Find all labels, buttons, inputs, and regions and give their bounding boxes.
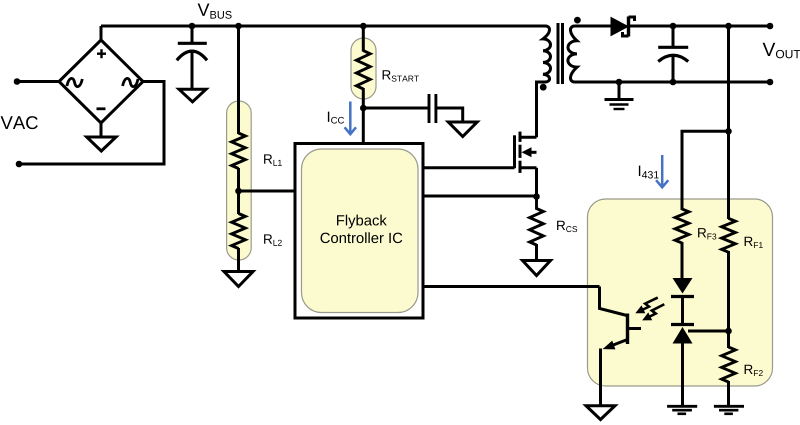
label RL1 xyxy=(264,154,282,165)
node VBUS junction at C1 xyxy=(189,23,196,30)
wire bridge right to VAC bottom xyxy=(19,82,164,165)
label RF3 xyxy=(698,228,716,239)
node secondary polarity dot xyxy=(574,17,581,24)
label VBUS xyxy=(198,4,232,19)
wire RF1 to RF2 xyxy=(727,251,730,348)
diode D1 schottky xyxy=(611,17,635,37)
bridge rectifier BR1 xyxy=(59,40,143,123)
wire VBUS to RSTART xyxy=(362,26,365,52)
wire RCS to ground xyxy=(535,244,538,261)
ground below RCS xyxy=(523,261,551,276)
resistor RF1 xyxy=(722,218,736,252)
resistor RL2 xyxy=(232,214,246,249)
current arrow I431 xyxy=(656,155,668,187)
capacitor bus C1 xyxy=(177,26,207,90)
wire C2 to ground xyxy=(436,108,463,123)
TL431 shunt regulator xyxy=(671,325,694,407)
ground below startup capacitor xyxy=(448,122,477,137)
wire MOSFET drain to transformer primary xyxy=(537,82,547,137)
node ICC junction xyxy=(360,105,367,112)
transformer T1 xyxy=(543,23,577,84)
resistor RL1 xyxy=(232,133,246,169)
ground below bridge xyxy=(87,137,116,151)
node VOUT terminal bottom xyxy=(767,79,774,86)
wire VBUS to RL1 xyxy=(237,26,240,134)
highlight region around feedback network xyxy=(588,199,773,386)
capacitor startup C2 xyxy=(429,94,436,123)
optocoupler phototransistor xyxy=(600,287,642,408)
resistor RF3 xyxy=(675,209,689,243)
node source/RCS junction xyxy=(533,193,540,200)
node VBUS junction at RL1 branch xyxy=(235,23,242,30)
wire TL431 ref to divider xyxy=(688,330,729,333)
wire VBUS rail xyxy=(101,25,546,28)
wire ICC node into IC top pin xyxy=(362,108,365,145)
node C3 bottom junction xyxy=(670,79,677,86)
node VOUT terminal top xyxy=(767,23,774,30)
light arrows into phototransistor xyxy=(633,298,668,325)
transistor Q1 MOSFET xyxy=(515,132,537,173)
wire bridge bottom stem xyxy=(100,122,103,138)
wire IC gate pin to MOSFET gate xyxy=(423,166,515,169)
wire MOSFET source down xyxy=(535,168,538,196)
label RCS xyxy=(557,221,577,232)
capacitor output C3 xyxy=(658,26,688,82)
wire IC feedback pin to optocoupler collector xyxy=(423,285,600,288)
label VAC xyxy=(1,116,38,129)
wire junction to IC left pin xyxy=(239,190,297,193)
label RF2 xyxy=(745,365,763,376)
node feedback tap junction on VOUT rail xyxy=(725,23,732,30)
current arrow ICC xyxy=(345,102,356,135)
label I431 xyxy=(639,166,659,179)
node VAC terminal top xyxy=(14,78,21,85)
wire junction to RF3 branch xyxy=(682,131,729,210)
wire ICC node to startup capacitor xyxy=(363,107,429,110)
ground TL431 earth xyxy=(667,406,697,414)
node VAC terminal bottom xyxy=(16,161,23,168)
node primary polarity dot xyxy=(540,84,547,91)
node RF3 branch junction xyxy=(725,128,732,135)
label RF1 xyxy=(745,237,763,248)
IC U1 Flyback Controller xyxy=(295,144,423,319)
wire secondary top to diode xyxy=(575,25,613,28)
optocoupler LED xyxy=(671,278,694,325)
wire VAC top to bridge xyxy=(17,80,59,83)
wire diode to VOUT xyxy=(629,25,771,28)
label RL2 xyxy=(264,234,282,245)
ground below phototransistor xyxy=(586,406,615,420)
wire RSTART to ICC node xyxy=(362,88,365,108)
node RL1/RL2 junction xyxy=(235,188,242,195)
wire secondary bottom rail xyxy=(575,81,771,84)
resistor RSTART xyxy=(356,51,370,89)
label ICC xyxy=(328,112,344,124)
resistor RF2 xyxy=(722,347,736,382)
ground below RL2 xyxy=(224,272,253,287)
node VBUS junction at RSTART xyxy=(360,23,367,30)
label RSTART xyxy=(383,70,419,81)
wire RL1 to RL2 xyxy=(237,168,240,214)
ground below bus capacitor xyxy=(179,89,206,102)
node TL431 ref junction xyxy=(725,328,732,335)
highlight pill around RL1/RL2 xyxy=(227,101,252,260)
wire bridge top to VBUS rail xyxy=(100,26,103,41)
ground secondary earth xyxy=(605,82,634,109)
wire RF3 to LED xyxy=(681,242,684,279)
wire feedback vertical from VOUT rail to RF1 xyxy=(727,26,730,219)
ground RF2 earth xyxy=(714,406,744,414)
wire RF2 to ground xyxy=(727,381,730,406)
node C3 top junction xyxy=(670,23,677,30)
label VOUT xyxy=(763,43,800,59)
node secondary ground junction xyxy=(616,79,623,86)
wire IC source pin to RCS node xyxy=(423,195,537,198)
resistor RCS xyxy=(530,196,544,245)
highlight pill around RSTART xyxy=(351,38,376,99)
wire RL2 to ground xyxy=(237,248,240,272)
